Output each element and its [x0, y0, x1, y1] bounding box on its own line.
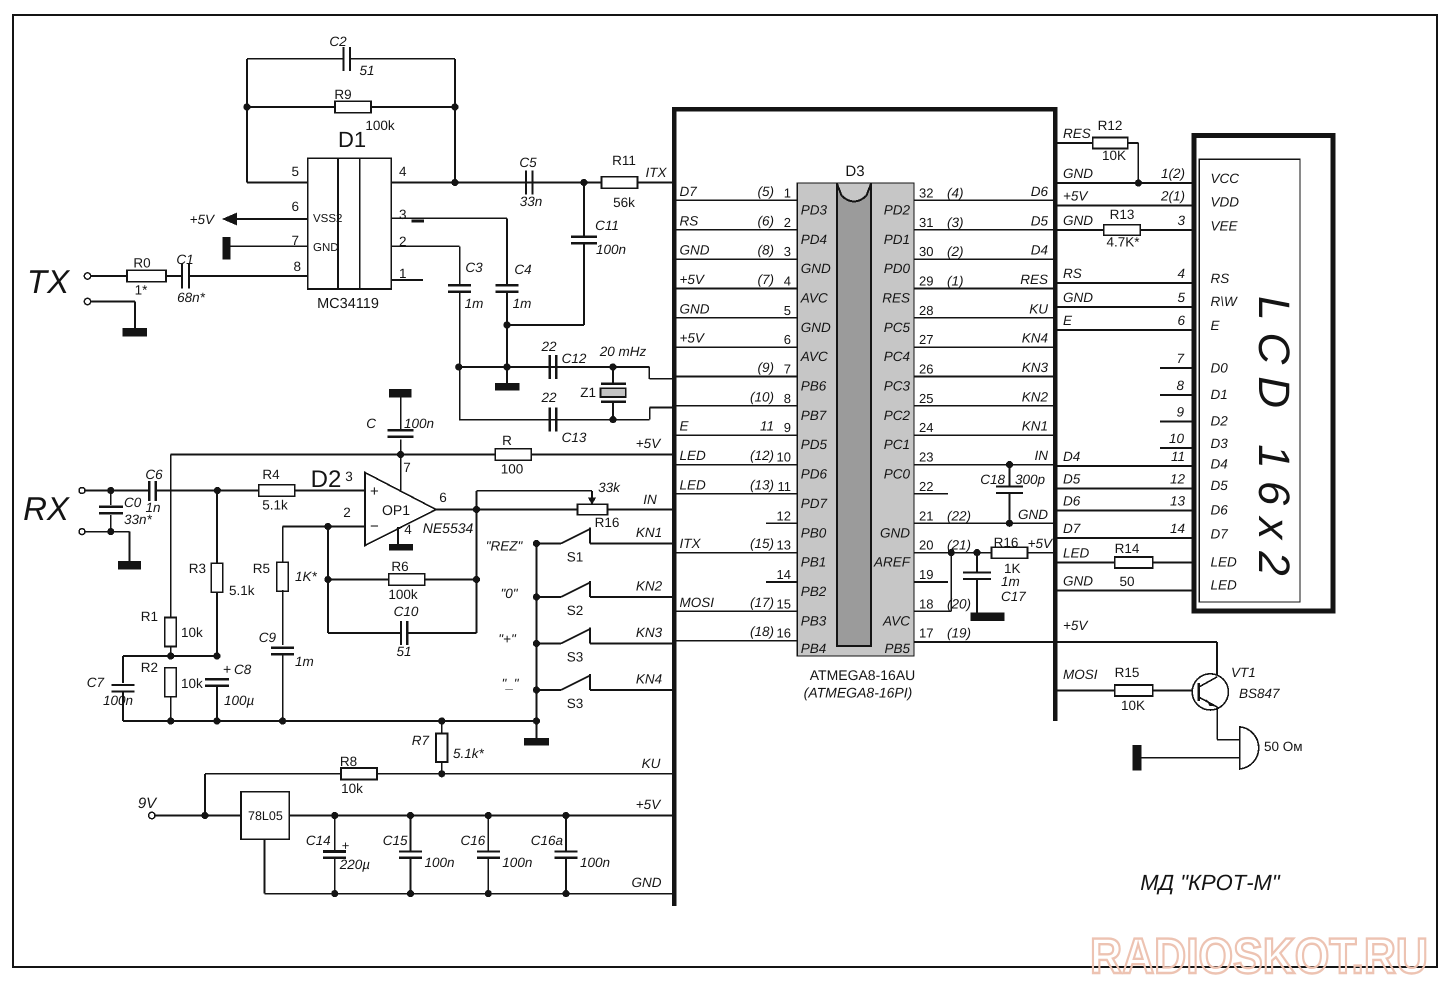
svg-text:C11: C11 — [595, 218, 619, 233]
svg-text:10k: 10k — [341, 781, 363, 796]
svg-text:C2: C2 — [329, 34, 347, 49]
svg-text:VDD: VDD — [1211, 195, 1240, 210]
svg-text:6: 6 — [291, 199, 299, 214]
svg-text:12: 12 — [777, 508, 791, 523]
svg-text:24: 24 — [919, 420, 933, 435]
svg-text:1: 1 — [784, 185, 791, 200]
svg-text:LED: LED — [1063, 546, 1090, 561]
svg-text:D6: D6 — [1063, 494, 1081, 509]
svg-text:C5: C5 — [519, 155, 537, 170]
svg-text:GND: GND — [680, 301, 710, 316]
svg-text:+5V: +5V — [190, 212, 216, 227]
svg-text:3: 3 — [784, 244, 791, 259]
svg-text:GND: GND — [801, 261, 831, 276]
svg-text:C14: C14 — [306, 833, 331, 848]
svg-text:PC4: PC4 — [884, 349, 910, 364]
svg-text:MOSI: MOSI — [680, 595, 715, 610]
svg-text:PD2: PD2 — [884, 202, 911, 217]
svg-text:LED: LED — [680, 477, 707, 492]
svg-text:GND: GND — [1018, 507, 1048, 522]
svg-text:R7: R7 — [412, 733, 430, 748]
svg-text:LED: LED — [680, 448, 707, 463]
svg-text:19: 19 — [919, 567, 933, 582]
svg-text:C12: C12 — [562, 351, 587, 366]
svg-text:D5: D5 — [1063, 472, 1081, 487]
svg-text:PC2: PC2 — [884, 408, 911, 423]
svg-text:26: 26 — [919, 362, 933, 377]
svg-text:PB0: PB0 — [801, 525, 827, 540]
svg-text:(7): (7) — [758, 272, 775, 287]
svg-text:KU: KU — [642, 756, 661, 771]
svg-text:100: 100 — [501, 462, 524, 477]
svg-text:(ATMEGA8-16PI): (ATMEGA8-16PI) — [804, 685, 913, 701]
svg-text:R12: R12 — [1098, 118, 1123, 133]
svg-text:PB7: PB7 — [801, 408, 827, 423]
svg-text:GND: GND — [632, 875, 662, 890]
svg-text:PD3: PD3 — [801, 202, 828, 217]
svg-text:51: 51 — [359, 63, 374, 78]
svg-text:(22): (22) — [947, 508, 971, 523]
svg-text:R16: R16 — [595, 515, 620, 530]
svg-text:4.7K*: 4.7K* — [1106, 235, 1140, 250]
svg-text:11: 11 — [760, 419, 774, 434]
svg-text:100k: 100k — [365, 118, 395, 133]
svg-text:C6: C6 — [145, 467, 163, 482]
svg-text:PD4: PD4 — [801, 232, 827, 247]
svg-text:11: 11 — [778, 479, 792, 494]
svg-text:GND: GND — [1063, 574, 1093, 589]
svg-text:E: E — [1211, 318, 1221, 333]
svg-text:R16: R16 — [994, 535, 1019, 550]
svg-text:7: 7 — [403, 460, 411, 475]
svg-text:D7: D7 — [1063, 521, 1081, 536]
svg-text:7: 7 — [1176, 351, 1184, 366]
svg-text:C1: C1 — [176, 252, 193, 267]
svg-text:PB6: PB6 — [801, 379, 827, 394]
svg-text:D2: D2 — [311, 466, 342, 493]
svg-text:(10): (10) — [750, 389, 774, 404]
svg-text:56k: 56k — [613, 195, 635, 210]
svg-text:S3: S3 — [567, 696, 584, 711]
svg-text:R15: R15 — [1115, 665, 1140, 680]
svg-text:5.1k: 5.1k — [229, 583, 255, 598]
svg-text:NE5534: NE5534 — [423, 520, 474, 536]
svg-text:21: 21 — [919, 508, 933, 523]
svg-text:5.1k: 5.1k — [262, 498, 288, 513]
svg-text:AVC: AVC — [882, 613, 910, 628]
svg-text:31: 31 — [919, 215, 933, 230]
svg-text:22: 22 — [540, 339, 557, 354]
svg-text:C7: C7 — [87, 675, 105, 690]
svg-text:AREF: AREF — [873, 555, 911, 570]
svg-text:LED: LED — [1211, 555, 1238, 570]
svg-text:16: 16 — [777, 626, 791, 641]
svg-text:(6): (6) — [758, 213, 775, 228]
svg-text:MC34119: MC34119 — [317, 296, 379, 312]
svg-text:(3): (3) — [947, 215, 964, 230]
svg-text:11: 11 — [1171, 449, 1185, 464]
svg-text:100µ: 100µ — [224, 693, 255, 708]
svg-text:AVC: AVC — [800, 290, 828, 305]
svg-text:KN2: KN2 — [636, 579, 663, 594]
svg-text:GND: GND — [880, 525, 910, 540]
svg-text:OP1: OP1 — [382, 502, 410, 518]
svg-text:R\W: R\W — [1211, 294, 1239, 309]
svg-text:R0: R0 — [133, 256, 150, 271]
svg-text:D1: D1 — [1211, 387, 1228, 402]
svg-text:D7: D7 — [1211, 527, 1229, 542]
svg-text:E: E — [1063, 313, 1073, 328]
svg-text:(15): (15) — [750, 536, 774, 551]
svg-text:1m: 1m — [513, 296, 532, 311]
svg-text:RS: RS — [1063, 266, 1082, 281]
svg-text:23: 23 — [919, 450, 933, 465]
svg-text:(17): (17) — [750, 595, 774, 610]
svg-text:68n*: 68n* — [177, 290, 206, 305]
svg-text:C13: C13 — [562, 430, 587, 445]
svg-text:220µ: 220µ — [339, 857, 371, 872]
svg-text:PD0: PD0 — [884, 261, 911, 276]
svg-text:VCC: VCC — [1211, 171, 1240, 186]
svg-text:RADIOSKOT.RU: RADIOSKOT.RU — [1090, 928, 1428, 984]
svg-text:C16a: C16a — [531, 833, 564, 848]
svg-text:IN: IN — [1035, 448, 1049, 463]
svg-text:RS: RS — [680, 213, 699, 228]
svg-text:(4): (4) — [947, 185, 964, 200]
svg-text:VSS2: VSS2 — [313, 213, 342, 225]
svg-text:51: 51 — [396, 644, 411, 659]
svg-text:R5: R5 — [253, 561, 270, 576]
svg-text:PC1: PC1 — [884, 437, 910, 452]
svg-text:D7: D7 — [680, 184, 698, 199]
svg-text:6: 6 — [439, 490, 447, 505]
svg-text:R14: R14 — [1115, 541, 1140, 556]
svg-text:PB4: PB4 — [801, 641, 827, 656]
svg-text:R8: R8 — [340, 754, 357, 769]
svg-text:S1: S1 — [567, 550, 584, 565]
svg-text:10K: 10K — [1121, 698, 1145, 713]
svg-text:4: 4 — [399, 164, 407, 179]
svg-text:100n: 100n — [103, 693, 133, 708]
svg-text:13: 13 — [1170, 494, 1186, 509]
svg-text:2: 2 — [784, 215, 791, 230]
svg-text:KN2: KN2 — [1022, 389, 1049, 404]
svg-text:D3: D3 — [1211, 436, 1229, 451]
svg-text:32: 32 — [919, 185, 933, 200]
svg-text:(1): (1) — [947, 273, 964, 288]
svg-text:8: 8 — [1176, 378, 1184, 393]
svg-text:AVC: AVC — [800, 349, 828, 364]
svg-text:TX: TX — [27, 263, 71, 300]
svg-text:C0: C0 — [124, 495, 142, 510]
svg-text:+5V: +5V — [1063, 618, 1089, 633]
svg-text:ATMEGA8-16AU: ATMEGA8-16AU — [810, 667, 916, 683]
svg-text:MOSI: MOSI — [1063, 667, 1098, 682]
svg-text:15: 15 — [777, 596, 791, 611]
svg-text:R3: R3 — [189, 561, 206, 576]
svg-text:R1: R1 — [141, 609, 158, 624]
svg-text:C: C — [366, 416, 376, 431]
svg-text:29: 29 — [919, 273, 933, 288]
svg-text:PB2: PB2 — [801, 584, 827, 599]
svg-text:C10: C10 — [394, 604, 419, 619]
svg-text:GND: GND — [1063, 213, 1093, 228]
svg-text:9V: 9V — [138, 795, 158, 812]
svg-text:+5V: +5V — [636, 797, 662, 812]
svg-text:D5: D5 — [1031, 213, 1049, 228]
svg-text:(19): (19) — [947, 626, 971, 641]
svg-text:KN3: KN3 — [1022, 360, 1049, 375]
svg-text:5: 5 — [1177, 290, 1185, 305]
svg-text:1m: 1m — [465, 296, 484, 311]
svg-text:GND: GND — [313, 242, 339, 254]
svg-text:10: 10 — [1169, 431, 1185, 446]
svg-text:GND: GND — [680, 243, 710, 258]
svg-text:PB1: PB1 — [801, 555, 827, 570]
svg-text:IN: IN — [643, 492, 657, 507]
svg-text:RES: RES — [1020, 272, 1048, 287]
svg-text:D6: D6 — [1031, 184, 1049, 199]
svg-text:R9: R9 — [334, 87, 351, 102]
svg-text:300p: 300p — [1015, 472, 1046, 487]
svg-text:33n: 33n — [520, 194, 543, 209]
svg-text:(13): (13) — [750, 477, 774, 492]
svg-text:R2: R2 — [141, 660, 158, 675]
svg-text:C15: C15 — [383, 833, 408, 848]
svg-text:D4: D4 — [1063, 449, 1080, 464]
svg-text:5.1k*: 5.1k* — [453, 746, 485, 761]
svg-text:R4: R4 — [262, 467, 280, 482]
svg-text:27: 27 — [919, 332, 933, 347]
svg-text:"+": "+" — [498, 632, 517, 647]
svg-text:+5V: +5V — [1028, 536, 1054, 551]
svg-text:RS: RS — [1211, 271, 1230, 286]
svg-text:RX: RX — [23, 490, 71, 527]
svg-text:+: + — [342, 838, 350, 853]
svg-text:14: 14 — [777, 567, 791, 582]
svg-text:1*: 1* — [135, 283, 149, 298]
svg-text:20 mHz: 20 mHz — [599, 344, 647, 359]
svg-text:+: + — [370, 483, 379, 500]
svg-text:10k: 10k — [181, 676, 203, 691]
svg-text:9: 9 — [1176, 405, 1184, 420]
svg-text:Z1: Z1 — [580, 385, 596, 400]
svg-text:6: 6 — [784, 332, 791, 347]
svg-text:22: 22 — [919, 479, 933, 494]
svg-text:9: 9 — [784, 420, 791, 435]
svg-text:ITX: ITX — [680, 536, 702, 551]
svg-text:33k: 33k — [598, 480, 621, 495]
svg-text:1m: 1m — [295, 654, 314, 669]
svg-text:PB3: PB3 — [801, 613, 827, 628]
svg-text:8: 8 — [784, 391, 791, 406]
svg-text:R13: R13 — [1110, 207, 1135, 222]
svg-text:10K: 10K — [1102, 148, 1126, 163]
svg-text:10: 10 — [777, 450, 791, 465]
svg-text:(18): (18) — [750, 624, 774, 639]
svg-text:C8: C8 — [234, 662, 252, 677]
svg-text:"REZ": "REZ" — [486, 539, 524, 554]
svg-text:LED: LED — [1211, 578, 1238, 593]
svg-text:(12): (12) — [750, 448, 774, 463]
svg-text:R11: R11 — [612, 153, 636, 168]
svg-text:100n: 100n — [404, 416, 434, 431]
svg-text:100n: 100n — [425, 855, 455, 870]
svg-text:(2): (2) — [947, 244, 964, 259]
svg-text:E: E — [680, 419, 690, 434]
svg-text:5: 5 — [784, 303, 791, 318]
svg-text:VT1: VT1 — [1231, 665, 1256, 680]
svg-text:PD7: PD7 — [801, 496, 828, 511]
svg-text:GND: GND — [1063, 290, 1093, 305]
svg-text:6: 6 — [1177, 313, 1185, 328]
svg-text:3: 3 — [1177, 213, 1185, 228]
svg-text:78L05: 78L05 — [248, 809, 283, 823]
svg-text:RES: RES — [882, 290, 910, 305]
svg-text:(8): (8) — [758, 243, 775, 258]
svg-text:KN1: KN1 — [636, 525, 662, 540]
svg-text:D2: D2 — [1211, 413, 1229, 428]
svg-text:C3: C3 — [465, 260, 483, 275]
svg-text:5: 5 — [291, 164, 299, 179]
svg-text:14: 14 — [1170, 521, 1185, 536]
svg-text:7: 7 — [784, 362, 791, 377]
svg-text:1m: 1m — [1001, 574, 1020, 589]
svg-text:PC3: PC3 — [884, 379, 911, 394]
svg-text:50: 50 — [1119, 574, 1134, 589]
svg-text:PC0: PC0 — [884, 467, 911, 482]
svg-text:"0": "0" — [500, 586, 518, 601]
svg-text:100n: 100n — [596, 242, 626, 257]
svg-text:"_": "_" — [501, 676, 519, 691]
svg-text:18: 18 — [919, 596, 933, 611]
svg-text:PD5: PD5 — [801, 437, 828, 452]
svg-text:C9: C9 — [259, 630, 277, 645]
svg-text:3: 3 — [399, 207, 407, 222]
svg-text:1: 1 — [399, 266, 407, 281]
svg-text:+5V: +5V — [680, 331, 706, 346]
svg-text:RES: RES — [1063, 126, 1091, 141]
svg-text:17: 17 — [919, 626, 933, 641]
svg-text:C4: C4 — [514, 262, 531, 277]
svg-text:100n: 100n — [580, 855, 610, 870]
svg-text:−: − — [370, 518, 379, 535]
svg-text:20: 20 — [919, 538, 933, 553]
svg-text:KN1: KN1 — [1022, 419, 1048, 434]
svg-text:МД "КРОТ-М": МД "КРОТ-М" — [1140, 870, 1281, 895]
svg-text:(5): (5) — [758, 184, 775, 199]
svg-text:D4: D4 — [1031, 243, 1048, 258]
svg-text:PD6: PD6 — [801, 467, 828, 482]
svg-text:BS847: BS847 — [1239, 686, 1280, 701]
svg-text:VEE: VEE — [1211, 218, 1239, 233]
svg-text:30: 30 — [919, 244, 933, 259]
svg-text:KN4: KN4 — [636, 672, 662, 687]
svg-text:25: 25 — [919, 391, 933, 406]
svg-text:100n: 100n — [502, 855, 532, 870]
svg-text:13: 13 — [777, 538, 791, 553]
svg-text:D4: D4 — [1211, 456, 1228, 471]
svg-text:D5: D5 — [1211, 478, 1229, 493]
svg-text:LCD 16x2: LCD 16x2 — [1249, 296, 1298, 588]
svg-text:+5V: +5V — [1063, 189, 1089, 204]
svg-text:ITX: ITX — [645, 165, 667, 180]
svg-text:C18: C18 — [980, 472, 1005, 487]
svg-text:KU: KU — [1029, 301, 1048, 316]
svg-text:3: 3 — [345, 469, 353, 484]
svg-text:4: 4 — [404, 522, 412, 537]
svg-text:D0: D0 — [1211, 361, 1229, 376]
svg-text:12: 12 — [1170, 472, 1186, 487]
svg-text:22: 22 — [540, 390, 557, 405]
svg-text:KN4: KN4 — [1022, 331, 1048, 346]
svg-text:10k: 10k — [181, 625, 203, 640]
svg-text:KN3: KN3 — [636, 625, 663, 640]
svg-text:PC5: PC5 — [884, 320, 911, 335]
svg-text:D3: D3 — [845, 163, 864, 180]
svg-text:1(2): 1(2) — [1161, 166, 1185, 181]
svg-text:1K*: 1K* — [295, 569, 318, 584]
svg-text:8: 8 — [293, 259, 301, 274]
svg-text:+: + — [223, 661, 231, 677]
svg-text:S3: S3 — [567, 650, 584, 665]
svg-text:2: 2 — [343, 505, 351, 520]
svg-text:4: 4 — [1177, 266, 1185, 281]
svg-text:+5V: +5V — [680, 272, 706, 287]
svg-text:2(1): 2(1) — [1160, 189, 1185, 204]
svg-text:S2: S2 — [567, 603, 584, 618]
svg-text:D1: D1 — [338, 127, 366, 152]
svg-text:4: 4 — [784, 273, 791, 288]
svg-text:50 Ом: 50 Ом — [1264, 739, 1303, 754]
svg-text:C16: C16 — [461, 833, 486, 848]
svg-text:GND: GND — [801, 320, 831, 335]
svg-text:28: 28 — [919, 303, 933, 318]
svg-text:R6: R6 — [391, 559, 408, 574]
svg-text:C17: C17 — [1001, 589, 1026, 604]
svg-text:PD1: PD1 — [884, 232, 910, 247]
svg-text:D6: D6 — [1211, 503, 1229, 518]
svg-text:100k: 100k — [388, 587, 418, 602]
svg-text:33n*: 33n* — [124, 512, 153, 527]
svg-text:GND: GND — [1063, 166, 1093, 181]
svg-text:+5V: +5V — [636, 436, 662, 451]
svg-text:PB5: PB5 — [884, 641, 910, 656]
svg-text:R: R — [502, 433, 512, 448]
svg-text:(9): (9) — [758, 360, 775, 375]
